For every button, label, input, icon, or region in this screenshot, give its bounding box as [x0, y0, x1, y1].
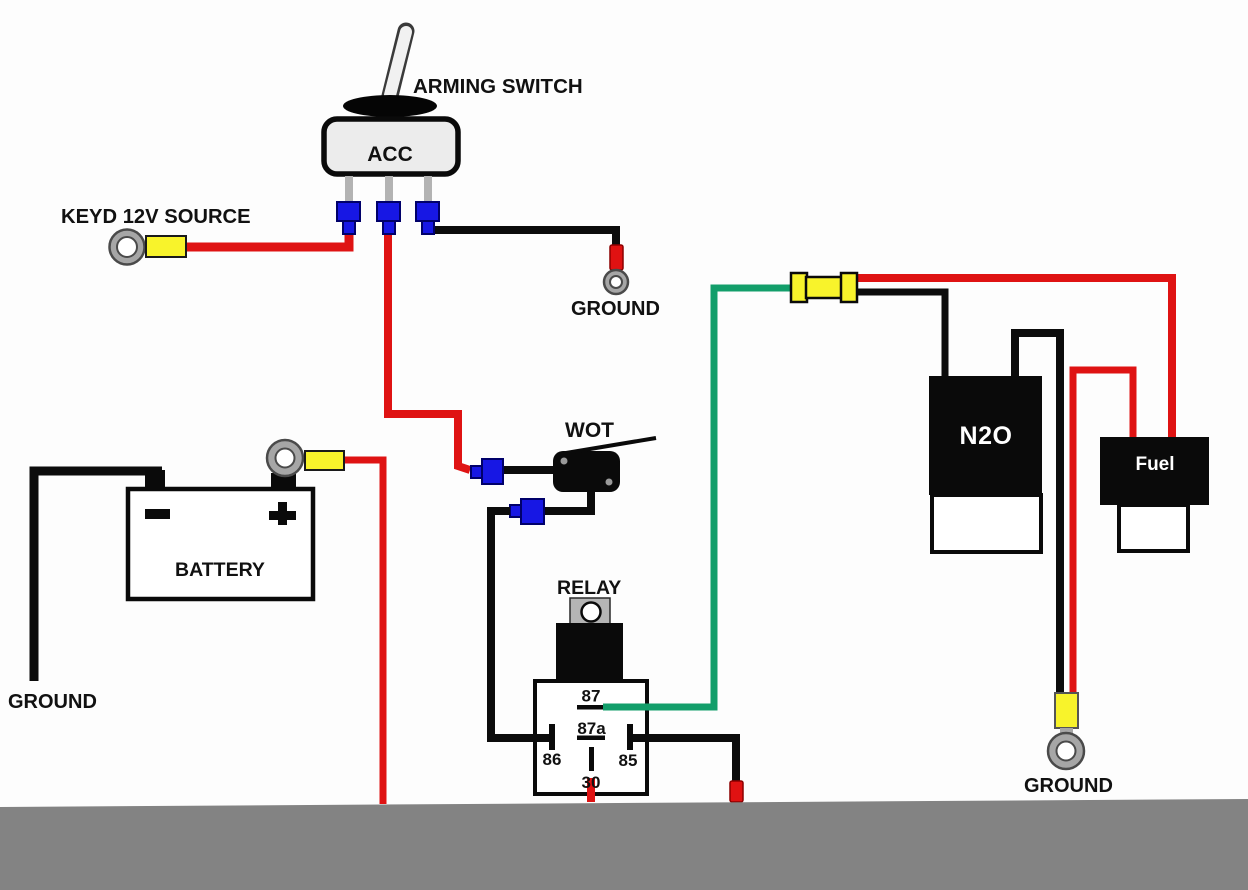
switch pin 1: [345, 176, 353, 204]
fuel solenoid base: [1119, 505, 1188, 551]
wire red keyed source to switch pin1: [186, 226, 349, 247]
relay pin 87a stub: [589, 747, 594, 771]
N2O solenoid base: [932, 495, 1041, 552]
wire black relay pin 85 to bottom connector: [630, 738, 736, 782]
blue connector pin 1: [337, 202, 360, 234]
battery plus symbol: [269, 502, 296, 525]
wire red right ground up to fuel solenoid: [1073, 370, 1133, 694]
wire green fuse to relay pin 87: [603, 288, 791, 707]
svg-text:N2O: N2O: [960, 422, 1013, 450]
svg-text:GROUND: GROUND: [571, 298, 660, 320]
svg-text:ACC: ACC: [367, 143, 413, 166]
wire black fuse to N2O solenoid: [856, 292, 945, 376]
yellow crimp keyed source: [146, 236, 186, 257]
relay mounting tab: [570, 598, 610, 624]
ring terminal switch ground: [604, 270, 628, 294]
blue connector WOT input: [471, 459, 503, 484]
ring terminal battery positive: [267, 440, 303, 476]
WOT screw top left: [561, 458, 568, 465]
fuse holder left cap: [791, 273, 807, 302]
svg-text:85: 85: [619, 751, 638, 770]
red connector below pin 85 wire: [730, 781, 743, 802]
toggle switch lever: [390, 31, 406, 96]
blue connector pin 3: [416, 202, 439, 234]
ring terminal right ground stub: [1060, 728, 1073, 736]
svg-text:30: 30: [582, 773, 601, 792]
svg-text:87: 87: [582, 687, 601, 706]
wire red switch pin2 down to WOT connector: [388, 228, 470, 470]
wire black WOT output to relay pin 86: [512, 490, 591, 511]
ring terminal right ground: [1048, 733, 1084, 769]
wire red battery positive down to bottom edge: [344, 460, 383, 804]
battery negative terminal: [145, 470, 165, 489]
svg-text:WOT: WOT: [565, 419, 614, 442]
WOT lever arm: [566, 438, 656, 453]
svg-text:ARMING SWITCH: ARMING SWITCH: [413, 75, 583, 98]
wire red fuse to fuel solenoid: [856, 278, 1172, 437]
switch pin 2: [385, 176, 393, 204]
red butt connector at switch ground: [610, 245, 623, 270]
wire red relay pin 30 stub: [587, 778, 595, 802]
wire black N2O solenoid to right ground: [1015, 333, 1060, 694]
switch pin 3: [424, 176, 432, 204]
fuse holder right cap: [841, 273, 857, 302]
arming switch body ACC: [324, 119, 458, 174]
fuse holder body: [806, 277, 843, 298]
relay body: [556, 623, 623, 679]
fuel solenoid body: [1100, 437, 1209, 505]
svg-text:KEYD 12V SOURCE: KEYD 12V SOURCE: [61, 206, 251, 228]
wire black battery negative to ground: [34, 471, 162, 681]
svg-text:86: 86: [543, 750, 562, 769]
battery box: [128, 489, 313, 599]
wire black WOT input: [503, 466, 556, 474]
relay pin 85 contact: [627, 724, 633, 750]
toggle switch base oval: [343, 95, 437, 117]
battery positive terminal: [271, 473, 296, 489]
svg-text:87a: 87a: [577, 719, 606, 738]
yellow crimp right ground: [1055, 693, 1078, 728]
wire black switch pin3 to ground terminal: [432, 230, 616, 248]
yellow crimp battery positive: [305, 451, 344, 470]
relay pin box: [535, 681, 647, 794]
WOT microswitch body: [553, 451, 620, 492]
blue connector pin 2: [377, 202, 400, 234]
relay pin 86 contact: [549, 724, 555, 750]
gray footer bar: [0, 799, 1248, 890]
blue connector WOT output: [510, 499, 544, 524]
WOT screw bottom right: [606, 479, 613, 486]
ring terminal keyed source: [110, 230, 145, 265]
N2O solenoid body: [929, 376, 1042, 495]
battery minus symbol: [145, 509, 170, 519]
svg-text:RELAY: RELAY: [557, 577, 621, 599]
relay mounting hole: [582, 603, 601, 622]
svg-text:BATTERY: BATTERY: [175, 559, 265, 581]
svg-text:GROUND: GROUND: [8, 691, 97, 713]
relay pin 87 contact: [577, 705, 603, 710]
svg-text:GROUND: GROUND: [1024, 775, 1113, 797]
relay pin 87a contact: [577, 736, 605, 741]
svg-text:Fuel: Fuel: [1135, 454, 1174, 475]
wire black WOT connector down to relay pin 86: [491, 511, 549, 738]
